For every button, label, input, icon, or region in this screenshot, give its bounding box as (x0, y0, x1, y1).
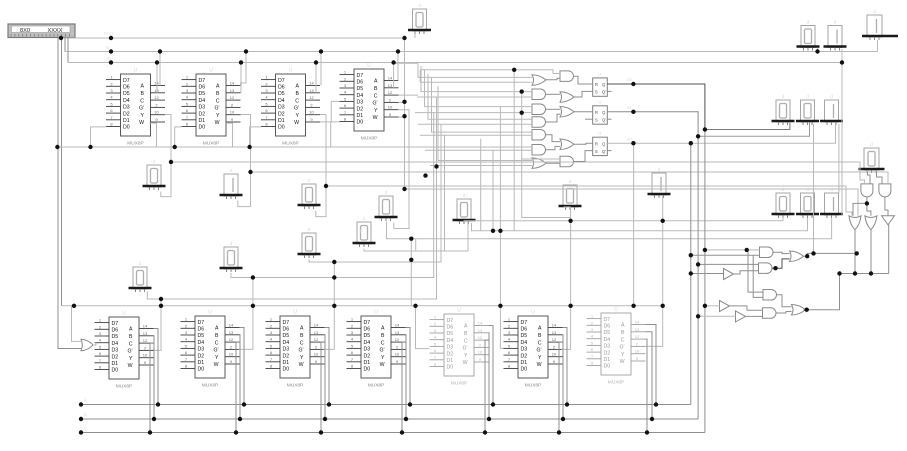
wire A-drop U1 (159, 52, 161, 86)
svg-text:Y: Y (215, 355, 219, 361)
svg-text:8: 8 (351, 364, 354, 369)
wire N-line y=186 (326, 186, 852, 216)
svg-text:8: 8 (270, 364, 273, 369)
svg-text:d: d (139, 261, 142, 267)
wire right line y=273.5 (840, 273, 889, 275)
svg-text:d: d (230, 168, 233, 174)
svg-text:7: 7 (270, 357, 273, 362)
node dot 17 at (521.7,91.6) (520, 89, 524, 93)
mux U4 (top row, MUX8P) (340, 63, 399, 142)
node dot 18 at (521.7,112.7) (520, 111, 524, 115)
svg-text:D7: D7 (521, 320, 528, 326)
or gate H2 (560, 92, 574, 103)
wire top bus y=62.5 (B-select) (68, 62, 842, 64)
svg-text:10: 10 (552, 352, 557, 357)
svg-text:14: 14 (229, 323, 234, 328)
svg-text:13: 13 (635, 327, 640, 332)
svg-text:D2: D2 (283, 353, 290, 359)
mux U11 (bottom row, MUX8P) (587, 307, 646, 386)
svg-text:d: d (385, 190, 388, 196)
wire G7-H5 (546, 162, 560, 164)
and gate R8 (763, 308, 777, 319)
wire fan low g6b (425, 149, 532, 151)
svg-text:13: 13 (230, 88, 235, 93)
node dot 81 at (704.9,249.9) (703, 248, 707, 252)
svg-text:W: W (299, 362, 304, 368)
probe/display mid-N (298, 178, 321, 209)
svg-text:D3: D3 (278, 105, 285, 111)
svg-text:D3: D3 (447, 345, 454, 351)
wire L-line y=162 (171, 162, 865, 184)
svg-text:8: 8 (99, 365, 102, 370)
svg-text:D3: D3 (357, 100, 364, 106)
wire G3-H3 (546, 108, 561, 110)
svg-text:13: 13 (395, 330, 400, 335)
svg-text:12: 12 (230, 95, 235, 100)
node dot 84 at (690.8,273.5) (689, 271, 693, 275)
svg-text:14: 14 (143, 324, 148, 329)
wire A-drop U3 (320, 52, 322, 86)
svg-text:2: 2 (351, 323, 354, 328)
node dot 20 at (404.5,116.2) (402, 114, 406, 118)
wire D2 out to D5 (885, 197, 888, 216)
svg-text:5: 5 (110, 101, 113, 106)
wire P-riser to G5 (444, 135, 446, 251)
node dot 3 at (111,51.5) (109, 49, 113, 53)
svg-text:D3: D3 (198, 347, 205, 353)
node dot 1 at (61,38) (59, 36, 63, 40)
node dot 87 at (813.5,253.4) (811, 251, 815, 255)
probe/display right-G (820, 94, 843, 125)
svg-text:13: 13 (229, 330, 234, 335)
svg-text:12: 12 (388, 90, 393, 95)
node dot 76 at (559,432.5) (557, 430, 561, 434)
node dot 31 at (570.6,220.8) (568, 219, 572, 223)
wire K pin1 to D1 (868, 172, 871, 184)
svg-text:1: 1 (99, 318, 102, 323)
wire L1-Qbar stub (607, 90, 611, 92)
and gate G5 (532, 130, 546, 141)
svg-text:A: A (300, 326, 304, 332)
node dot 22 at (633.4,111.8) (631, 110, 635, 114)
svg-text:W: W (373, 115, 378, 121)
svg-text:Q': Q' (602, 90, 606, 95)
node dot 27 at (171,162) (169, 160, 173, 164)
node dot 36 at (436.5,166.5) (434, 164, 438, 168)
wire Q-line y=262 (309, 124, 441, 262)
svg-text:2: 2 (310, 102, 313, 107)
wire fan feed y63 elbow (394, 62, 418, 64)
and gate G6 (532, 145, 546, 156)
svg-text:C: C (464, 338, 468, 344)
wire R2 out net (804, 253, 857, 256)
svg-text:D7: D7 (364, 320, 371, 326)
mux U8 (bottom row, MUX8P) (347, 310, 406, 389)
probe/display top-A (408, 3, 431, 34)
svg-text:2: 2 (110, 81, 113, 86)
wire fan v438 (438, 86, 532, 161)
svg-text:C: C (374, 93, 378, 99)
svg-text:3: 3 (434, 328, 437, 333)
probe/display right-I (796, 187, 819, 218)
svg-text:1: 1 (186, 75, 189, 80)
svg-text:12: 12 (309, 95, 314, 100)
svg-text:A: A (296, 84, 300, 90)
svg-text:B: B (374, 86, 378, 92)
probe/display top-D (wide) (862, 9, 898, 40)
svg-text:D0: D0 (123, 125, 130, 131)
svg-text:d: d (830, 187, 833, 193)
svg-text:D7: D7 (604, 317, 611, 323)
svg-text:d: d (230, 241, 233, 247)
svg-text:4: 4 (351, 337, 354, 342)
svg-text:5: 5 (434, 341, 437, 346)
svg-text:10: 10 (143, 353, 148, 358)
svg-text:14: 14 (388, 76, 393, 81)
svg-text:2: 2 (185, 323, 188, 328)
wire fan low g1b (420, 81, 532, 83)
svg-text:8: 8 (591, 361, 594, 366)
svg-text:7: 7 (186, 115, 189, 120)
buffer R4 (724, 269, 734, 280)
svg-text:W: W (128, 363, 133, 369)
svg-text:10: 10 (478, 350, 483, 355)
svg-text:B: B (215, 333, 219, 339)
svg-text:G': G' (462, 346, 467, 352)
node dot 68 at (410,404.5) (408, 402, 412, 406)
wire fan low g3b (415, 112, 532, 114)
svg-text:MUX8P: MUX8P (116, 384, 133, 390)
and gate D1 (down) (861, 184, 873, 197)
svg-text:Y: Y (538, 355, 542, 361)
svg-text:D1: D1 (357, 113, 364, 119)
svg-text:10: 10 (230, 110, 235, 115)
wire U10 B-riser (562, 335, 565, 419)
svg-text:D6: D6 (521, 327, 528, 333)
wire B-drop U4 (393, 63, 395, 88)
svg-text:3: 3 (508, 330, 511, 335)
wire U4-D0 elbow (331, 122, 340, 147)
svg-text:sr: sr (106, 45, 110, 50)
node dot 89 at (866.9,203.4) (865, 201, 869, 205)
svg-text:3: 3 (344, 83, 347, 88)
wire U1-W drop (150, 123, 157, 147)
wire R6 in line (705, 305, 720, 307)
wire G5-H4 (546, 135, 561, 142)
svg-text:D7: D7 (447, 318, 454, 324)
svg-text:W: W (463, 360, 468, 366)
svg-text:1: 1 (270, 317, 273, 322)
probe/display mid-V (648, 167, 671, 198)
svg-text:D3: D3 (199, 105, 206, 111)
node dot 93 at (806.7,309.7) (805, 308, 809, 312)
or gate D4 (down) (865, 216, 877, 230)
svg-text:d: d (873, 9, 876, 15)
or gate G1 (532, 75, 546, 86)
svg-text:D3: D3 (112, 348, 119, 354)
buffer R7 (736, 311, 746, 322)
svg-text:d: d (418, 3, 421, 9)
svg-text:D5: D5 (278, 91, 285, 97)
svg-text:7: 7 (99, 358, 102, 363)
svg-text:D3: D3 (283, 347, 290, 353)
svg-text:B: B (300, 333, 304, 339)
wire R-line y=277.5 (231, 113, 434, 278)
node dot 23 at (633.4,143.2) (631, 141, 635, 145)
node dot 26 at (704.9,129.5) (703, 127, 707, 131)
svg-text:C: C (216, 98, 220, 104)
svg-text:3: 3 (351, 330, 354, 335)
node dot 51 at (415.5,305.8) (413, 304, 417, 308)
svg-text:A: A (621, 323, 625, 329)
svg-text:10: 10 (229, 352, 234, 357)
node dot 75 at (563,419) (561, 417, 565, 421)
svg-text:6: 6 (434, 348, 437, 353)
svg-text:D1: D1 (198, 360, 205, 366)
svg-text:5: 5 (185, 343, 188, 348)
wire Q-riser to U7 G-enable (324, 262, 335, 349)
node dot 43 at (57.4,147) (55, 145, 59, 149)
node dot 19 at (404.5,101.8) (402, 100, 406, 104)
svg-text:9: 9 (155, 117, 158, 122)
svg-text:4: 4 (186, 95, 189, 100)
wire U7 B-riser (324, 335, 327, 419)
svg-text:12: 12 (314, 337, 319, 342)
svg-text:d: d (363, 216, 366, 222)
wire fan v418 (418, 63, 532, 77)
node dot 10 at (241,62.5) (239, 60, 243, 64)
node dot 21 at (633.4,84) (631, 82, 635, 86)
svg-text:Y: Y (381, 355, 385, 361)
wire bottom bus2 y=419 (81, 418, 698, 420)
svg-text:5: 5 (265, 101, 268, 106)
node dot 63 at (240,419) (238, 417, 242, 421)
svg-text:C: C (295, 98, 299, 104)
wire riser x=493 (492, 150, 494, 231)
node dot 78 at (652,419) (650, 417, 654, 421)
node dot 53 at (570.6,305.8) (568, 304, 572, 308)
svg-text:Y: Y (129, 356, 133, 362)
svg-text:U: U (531, 310, 535, 316)
svg-text:MUX8P: MUX8P (608, 380, 625, 386)
svg-text:D5: D5 (198, 333, 205, 339)
svg-text:D7: D7 (278, 78, 285, 84)
node dot 41 at (334.3,277.5) (332, 275, 336, 279)
svg-text:10: 10 (309, 110, 314, 115)
svg-text:9: 9 (315, 359, 318, 364)
svg-text:2: 2 (434, 321, 437, 326)
node dot 95 at (698.1,316.3) (696, 314, 700, 318)
svg-text:6: 6 (186, 108, 189, 113)
svg-text:MUX8P: MUX8P (127, 141, 144, 147)
wire U6 C-riser (236, 342, 240, 432)
svg-text:2: 2 (508, 323, 511, 328)
svg-text:5: 5 (186, 101, 189, 106)
svg-text:D4: D4 (364, 340, 371, 346)
node dot 47 at (74,305.8) (72, 304, 76, 308)
svg-text:U: U (367, 63, 371, 69)
svg-text:4: 4 (110, 95, 113, 100)
svg-text:9: 9 (230, 359, 233, 364)
svg-text:D0: D0 (112, 368, 119, 374)
svg-text:D4: D4 (447, 338, 454, 344)
wire R-riser to U6 G-enable (239, 278, 253, 350)
svg-text:Y: Y (621, 352, 625, 358)
node dot 60 at (154,419) (152, 417, 156, 421)
svg-text:u: u (598, 72, 601, 77)
wire D0-net line y=147 (feeds top-chip D0 pins, ends at G6) (57, 146, 532, 148)
svg-text:13: 13 (143, 331, 148, 336)
sr-latch U20 (593, 72, 608, 96)
svg-text:G': G' (213, 348, 218, 354)
svg-text:7: 7 (591, 354, 594, 359)
svg-text:t: t (466, 193, 468, 198)
svg-text:B: B (538, 333, 542, 339)
wire D5 out drop (887, 225, 890, 274)
wire bottom bus3 y=432.5 (81, 432, 705, 434)
svg-text:D0: D0 (278, 125, 285, 131)
svg-text:8: 8 (508, 364, 511, 369)
svg-text:2: 2 (230, 344, 233, 349)
svg-text:13: 13 (478, 328, 483, 333)
svg-text:7: 7 (110, 115, 113, 120)
svg-text:1: 1 (351, 317, 354, 322)
svg-text:13: 13 (314, 330, 319, 335)
node dot 48 at (161,305.8) (159, 304, 163, 308)
node dot 6 at (246,51.5) (244, 49, 248, 53)
svg-text:G': G' (139, 106, 144, 112)
svg-text:G': G' (294, 106, 299, 112)
svg-text:D4: D4 (123, 98, 130, 104)
wire bottom bus1 y=404.5 (81, 404, 691, 406)
wire U-drop to U10 G-enable (562, 221, 571, 350)
svg-text:S: S (595, 149, 598, 154)
svg-text:rd: rd (106, 56, 111, 61)
wire U6 B-riser (239, 335, 242, 419)
svg-text:D4: D4 (198, 340, 205, 346)
probe/display right-F (796, 94, 819, 125)
svg-text:c: c (84, 426, 87, 431)
svg-text:14: 14 (552, 323, 557, 328)
wire U2-W drop (226, 123, 233, 147)
svg-text:2: 2 (315, 344, 318, 349)
svg-text:D0: D0 (283, 367, 290, 373)
svg-text:4: 4 (270, 337, 273, 342)
node dot 74 at (567,404.5) (565, 402, 569, 406)
svg-text:3: 3 (591, 327, 594, 332)
svg-text:D6: D6 (447, 325, 454, 331)
wire fan v428 (428, 74, 532, 119)
svg-text:XXXX: XXXX (48, 28, 63, 34)
sr-latch U22 (593, 132, 608, 156)
svg-text:4: 4 (185, 337, 188, 342)
svg-text:2: 2 (265, 81, 268, 86)
wire P-riser (415, 239, 417, 251)
svg-text:3: 3 (99, 331, 102, 336)
node dot 71 at (493,404.5) (491, 402, 495, 406)
and gate R5 (763, 290, 777, 301)
svg-text:R: R (595, 110, 598, 115)
wire S-riser to U5 G-enable (154, 299, 162, 350)
node dot 45 at (174.7,147) (173, 145, 177, 149)
wire probe-B drop (817, 48, 819, 52)
node dot 13 at (404.5,38) (402, 36, 406, 40)
wire U2-D0 elbow (175, 127, 182, 147)
svg-text:D7: D7 (123, 78, 130, 84)
svg-text:C: C (129, 341, 133, 347)
svg-text:D6: D6 (199, 85, 206, 91)
node dot 92 at (871,273.5) (869, 271, 873, 275)
and gate H5 (560, 156, 574, 167)
svg-text:D2: D2 (112, 354, 119, 360)
node dot 7 at (321,51.5) (319, 49, 323, 53)
svg-text:8X0: 8X0 (20, 28, 30, 34)
svg-text:G': G' (372, 101, 377, 107)
svg-text:D5: D5 (357, 86, 364, 92)
wire U5 C-riser (150, 343, 154, 432)
svg-text:C: C (300, 340, 304, 346)
wire fan low g2b (417, 96, 532, 98)
svg-text:1: 1 (110, 75, 113, 80)
svg-text:6: 6 (99, 351, 102, 356)
probe/display right-J (820, 187, 843, 218)
svg-text:5: 5 (591, 340, 594, 345)
svg-text:R: R (595, 141, 598, 146)
buffer D5 (down) (882, 216, 895, 225)
svg-text:G': G' (619, 345, 624, 351)
wire probe-C drop (841, 49, 843, 63)
svg-text:x1: x1 (627, 105, 632, 110)
svg-text:12: 12 (154, 95, 159, 100)
svg-text:D6: D6 (278, 85, 285, 91)
svg-text:C: C (140, 98, 144, 104)
svg-text:12: 12 (143, 338, 148, 343)
svg-text:D4: D4 (521, 340, 528, 346)
wire R8 out jog to R9 (776, 312, 792, 314)
svg-text:D4: D4 (112, 341, 119, 347)
svg-text:MUX8P: MUX8P (368, 383, 385, 389)
node dot 30 at (404.5,189) (402, 187, 406, 191)
svg-text:12: 12 (478, 335, 483, 340)
svg-text:D5: D5 (521, 333, 528, 339)
svg-text:14: 14 (314, 323, 319, 328)
node dot 12 at (393.6,62.5) (391, 60, 395, 64)
svg-text:R: R (595, 82, 598, 87)
wire U1-D0 elbow (91, 127, 107, 147)
svg-text:U: U (374, 310, 378, 316)
node dot 66 at (325,419) (323, 417, 327, 421)
svg-text:D2: D2 (199, 111, 206, 117)
wire fan v405 chip4-Y branch (404, 102, 406, 189)
svg-text:D1: D1 (283, 360, 290, 366)
svg-text:W: W (294, 120, 299, 126)
svg-text:D0: D0 (604, 364, 611, 370)
svg-text:W: W (537, 362, 542, 368)
wire R7 in line (698, 315, 735, 317)
wire riser x521 (522, 92, 571, 218)
svg-text:1: 1 (591, 314, 594, 319)
svg-text:Y: Y (141, 113, 145, 119)
svg-text:9: 9 (479, 357, 482, 362)
wire D1 out to D3 branch (853, 203, 867, 215)
svg-text:D6: D6 (604, 324, 611, 330)
svg-text:6: 6 (591, 347, 594, 352)
svg-text:7: 7 (434, 355, 437, 360)
node dot 15 at (842,62.5) (840, 60, 844, 64)
svg-text:2: 2 (186, 81, 189, 86)
wire riser x480 (480, 139, 482, 231)
wire enable bus y=305.8 (62, 305, 661, 307)
